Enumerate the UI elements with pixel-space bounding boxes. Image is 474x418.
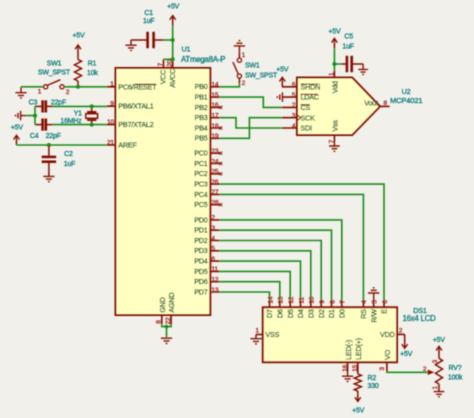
U2 left pin numbers <box>292 82 296 130</box>
svg-text:PD1: PD1 <box>194 226 208 235</box>
svg-text:5: 5 <box>292 92 296 99</box>
U2 reference and value labels <box>390 87 422 105</box>
svg-text:Y1: Y1 <box>74 110 82 117</box>
svg-text:C2: C2 <box>64 151 73 158</box>
U2 Vdd pin (1) <box>328 70 339 93</box>
svg-text:100k: 100k <box>448 374 463 381</box>
svg-text:2: 2 <box>66 89 70 96</box>
wire ground to SW1 <box>21 86 43 88</box>
RV pin numbers 3,1 <box>432 359 439 389</box>
U1 left pin stubs (1,9,10,21) <box>107 87 116 145</box>
svg-text:PB3: PB3 <box>195 113 208 122</box>
svg-text:5: 5 <box>372 300 379 304</box>
IC U2 MCP4021 body <box>297 78 380 136</box>
svg-text:Vout: Vout <box>364 98 378 107</box>
svg-text:D3: D3 <box>306 309 315 318</box>
wire +5V to Vdd and C5 <box>334 49 341 71</box>
svg-text:2: 2 <box>399 327 403 334</box>
svg-text:PD7: PD7 <box>194 287 208 296</box>
capacitor C5 <box>341 56 363 72</box>
svg-text:1uF: 1uF <box>143 18 154 25</box>
svg-text:VO: VO <box>383 349 392 360</box>
power +5V (AREF) <box>11 124 24 145</box>
svg-text:9: 9 <box>110 101 114 108</box>
wire C3/C4 common <box>26 106 35 124</box>
ground (C1) <box>125 40 136 50</box>
svg-text:PC6/RESET: PC6/RESET <box>118 82 157 91</box>
svg-text:U2: U2 <box>402 87 411 96</box>
resistor R1 <box>75 60 82 82</box>
U1 bottom pins GND(8) AGND(22) <box>156 293 177 325</box>
svg-text:4: 4 <box>292 123 296 130</box>
svg-text:4: 4 <box>211 235 215 242</box>
switch SW1 (reset) <box>44 80 65 89</box>
power +5V (SHDN) <box>276 66 289 86</box>
capacitor C3 <box>35 100 53 112</box>
ground (U2 Vss) <box>329 142 340 151</box>
svg-text:SW1: SW1 <box>47 60 62 67</box>
svg-text:16: 16 <box>211 102 218 109</box>
svg-text:8: 8 <box>383 100 387 107</box>
svg-text:PB1: PB1 <box>195 93 208 102</box>
svg-text:D1: D1 <box>327 309 336 318</box>
U1 right pin numbers PD0-PD7 <box>211 215 218 294</box>
svg-text:6: 6 <box>292 82 296 89</box>
svg-text:PD4: PD4 <box>194 257 208 266</box>
svg-text:1: 1 <box>38 88 42 95</box>
svg-text:24: 24 <box>211 158 218 165</box>
svg-text:1: 1 <box>110 81 114 88</box>
power +5V (R1 top) <box>72 33 85 60</box>
ground (SW1b, inverted) <box>234 41 245 53</box>
svg-text:+5V: +5V <box>11 124 24 131</box>
svg-text:7: 7 <box>340 300 347 304</box>
LCD DS1 body <box>263 307 397 362</box>
svg-text:+5V: +5V <box>167 3 180 10</box>
svg-text:6: 6 <box>382 300 389 304</box>
svg-text:PD3: PD3 <box>194 246 208 255</box>
ground (RV bottom) <box>434 384 445 397</box>
no-connect marks on PB2, PB4, PC0, PC1, PC2, PC5 <box>219 106 222 206</box>
capacitor C1 <box>131 32 164 48</box>
svg-text:SW_SPST: SW_SPST <box>245 73 278 80</box>
svg-text:12: 12 <box>211 277 218 284</box>
U1 left pin names <box>118 82 157 149</box>
U2 Vout pin (8) <box>364 98 389 107</box>
U1 right pin numbers 23-28 <box>211 148 218 207</box>
C5 labels 1uF <box>342 34 353 51</box>
svg-text:10k: 10k <box>87 70 98 77</box>
svg-text:MCP4021: MCP4021 <box>390 96 422 105</box>
DS1 reference and value labels <box>403 306 437 323</box>
junction R1/reset <box>76 85 80 89</box>
ground (reset switch) <box>15 87 26 98</box>
svg-text:+5V: +5V <box>72 33 85 40</box>
C4 labels 22pF <box>30 133 61 140</box>
wire C3 to XTAL1 <box>53 105 108 107</box>
svg-text:28: 28 <box>211 200 218 207</box>
svg-text:R2: R2 <box>368 375 377 382</box>
LCD VO pin (3) <box>379 349 392 372</box>
LCD LED(+) pin (15) <box>352 338 363 374</box>
svg-text:22: 22 <box>165 317 172 324</box>
svg-text:4: 4 <box>361 300 368 304</box>
svg-text:19: 19 <box>211 133 218 140</box>
svg-text:1: 1 <box>432 386 439 390</box>
svg-text:D2: D2 <box>317 309 326 318</box>
resistor R2 <box>354 374 361 391</box>
svg-text:RS: RS <box>359 309 368 319</box>
C3 labels 22pF <box>29 100 66 107</box>
U1 right pin stubs PC0-PC5 <box>210 153 219 205</box>
U1 left pin numbers <box>107 81 114 146</box>
R1 labels 10k <box>87 60 98 77</box>
svg-text:11: 11 <box>211 266 218 273</box>
svg-text:8: 8 <box>329 300 336 304</box>
svg-text:PB2: PB2 <box>195 103 208 112</box>
SW1b pin numbers <box>242 52 246 87</box>
svg-text:2: 2 <box>211 215 215 222</box>
svg-text:13: 13 <box>278 296 285 304</box>
svg-text:VDD: VDD <box>380 330 395 339</box>
svg-text:15: 15 <box>352 364 359 371</box>
svg-text:1uF: 1uF <box>64 161 75 168</box>
svg-text:+5V: +5V <box>400 351 413 358</box>
svg-text:+5V: +5V <box>328 28 341 35</box>
svg-text:Vss: Vss <box>331 120 340 132</box>
U1 right pin names PC0-PC5 <box>194 149 208 210</box>
svg-text:+5V: +5V <box>433 337 446 344</box>
svg-text:D5: D5 <box>286 309 295 318</box>
LCD top pin names D0-D7, RS, R/W, E <box>265 309 346 318</box>
power +5V (LCD VDD, down) <box>400 334 413 358</box>
svg-text:16MHz: 16MHz <box>60 118 82 125</box>
svg-text:C4: C4 <box>30 133 39 140</box>
U1 right pin numbers 14-19 <box>211 82 218 141</box>
svg-text:AREF: AREF <box>118 141 137 150</box>
power +5V (RV top) <box>433 337 446 358</box>
svg-text:14: 14 <box>211 82 218 89</box>
wire PB0 to SW1b <box>220 84 240 87</box>
svg-text:VSS: VSS <box>265 330 279 339</box>
R1 bottom pin <box>77 81 79 87</box>
U1 reference and value labels <box>181 45 225 65</box>
svg-text:LED(-): LED(-) <box>344 340 353 360</box>
svg-text:3: 3 <box>379 367 386 371</box>
U1 right pin names PB0-PB5 <box>195 82 208 143</box>
svg-text:D6: D6 <box>275 309 284 318</box>
svg-text:E: E <box>380 309 389 314</box>
svg-text:3: 3 <box>432 359 439 363</box>
RV wiper arrow (pin 2) <box>423 366 434 375</box>
svg-text:16: 16 <box>342 364 349 371</box>
svg-text:U1: U1 <box>182 45 191 54</box>
LCD LED(-) pin (16) <box>342 340 353 372</box>
wire C1 to rail <box>164 39 173 41</box>
switch SW1 (PB0, vertical) <box>233 53 242 84</box>
svg-text:11: 11 <box>298 297 305 304</box>
wire AREF <box>17 144 108 146</box>
LCD VSS pin (1) <box>255 327 279 339</box>
svg-text:25: 25 <box>211 169 218 176</box>
wire PB1 to CS <box>220 97 282 107</box>
svg-text:18: 18 <box>211 123 218 130</box>
svg-text:2: 2 <box>292 102 296 109</box>
U2 Vss pin (7) <box>328 120 339 144</box>
wire VO to potentiometer wiper <box>387 371 428 373</box>
svg-text:330: 330 <box>368 383 379 390</box>
svg-text:10: 10 <box>107 119 114 126</box>
svg-text:PD2: PD2 <box>194 236 208 245</box>
junction C3/C4 gnd <box>33 114 37 118</box>
ground (C5) <box>358 64 368 75</box>
svg-text:D0: D0 <box>337 309 346 318</box>
junction C1/+5V <box>171 38 175 42</box>
svg-text:PB7/XTAL2: PB7/XTAL2 <box>118 120 153 129</box>
svg-text:22pF: 22pF <box>46 133 61 140</box>
svg-text:SW1: SW1 <box>245 63 260 70</box>
svg-text:1: 1 <box>328 72 335 76</box>
capacitor C2 <box>42 145 56 176</box>
power +5V (U2/C5) <box>328 28 341 48</box>
svg-text:PD0: PD0 <box>194 215 208 224</box>
svg-text:26: 26 <box>211 179 218 186</box>
svg-text:6: 6 <box>211 256 215 263</box>
svg-text:VCC: VCC <box>158 70 167 85</box>
svg-text:PC1: PC1 <box>194 159 208 168</box>
wire +5V down to AVCC <box>164 26 173 60</box>
power +5V (VCC rail) <box>167 3 180 25</box>
capacitor C4 <box>35 119 53 131</box>
svg-text:D4: D4 <box>296 309 305 318</box>
wire PC4 to RS <box>220 194 364 300</box>
power +5V (R2, down) <box>352 391 365 415</box>
svg-text:27: 27 <box>211 189 218 196</box>
svg-text:16x4 LCD: 16x4 LCD <box>403 314 437 323</box>
U1 right pin stubs PB0-PB5 <box>210 87 219 139</box>
LCD VDD pin (2) <box>380 327 405 339</box>
svg-text:12: 12 <box>288 296 295 304</box>
svg-text:10: 10 <box>309 296 316 304</box>
LCD top pin stubs <box>270 300 385 307</box>
svg-text:PC5: PC5 <box>194 200 208 209</box>
svg-text:C1: C1 <box>144 10 153 17</box>
svg-text:ATmega8A-P: ATmega8A-P <box>181 55 225 64</box>
svg-text:AGND: AGND <box>167 293 176 313</box>
svg-text:R1: R1 <box>88 60 97 67</box>
svg-text:PC3: PC3 <box>194 180 208 189</box>
ground (crystal caps, rotated left) <box>16 111 27 120</box>
svg-text:+5V: +5V <box>352 408 365 415</box>
U2 SCK clock mark <box>297 115 301 121</box>
svg-text:2: 2 <box>423 366 427 373</box>
U1 right pin stubs PD0-PD7 <box>210 220 219 292</box>
junction GND/AGND <box>165 325 169 329</box>
svg-text:3: 3 <box>292 113 296 120</box>
crystal Y1 <box>86 106 98 124</box>
RV labels RV? 100k <box>448 365 463 381</box>
svg-text:C5: C5 <box>344 34 353 41</box>
svg-text:Vdd: Vdd <box>331 81 340 93</box>
U1 right pin names PD0-PD7 <box>194 215 208 296</box>
junction crystal bottom <box>90 123 94 127</box>
wire GND/AGND join <box>162 324 171 338</box>
svg-text:PC2: PC2 <box>194 169 208 178</box>
wire C4 to XTAL2 <box>53 124 108 126</box>
U2 left pin names <box>301 82 321 132</box>
svg-text:PB0: PB0 <box>195 82 208 91</box>
wire PB3 to SDI <box>220 118 282 128</box>
svg-text:14: 14 <box>267 296 274 304</box>
svg-text:PC0: PC0 <box>194 149 208 158</box>
svg-text:8: 8 <box>156 320 163 324</box>
wire PC3 to E <box>220 184 384 300</box>
svg-text:+5V: +5V <box>276 66 289 73</box>
R2 labels 330 <box>368 375 379 390</box>
svg-text:2: 2 <box>242 80 246 87</box>
IC U1 ATmega8A-P body <box>116 68 211 315</box>
junction VCC split <box>171 57 175 61</box>
ground (LCD VSS) <box>250 335 261 344</box>
svg-text:1: 1 <box>255 327 259 334</box>
wire PB5 to SCK <box>220 118 282 139</box>
svg-text:C3: C3 <box>29 100 38 107</box>
svg-text:13: 13 <box>211 287 218 294</box>
svg-text:SDI: SDI <box>301 124 313 133</box>
SW1 labels SW_SPST <box>38 60 71 76</box>
svg-text:17: 17 <box>211 113 218 120</box>
svg-text:PC4: PC4 <box>194 190 208 199</box>
svg-text:GND: GND <box>158 297 167 312</box>
svg-text:SW_SPST: SW_SPST <box>38 69 71 76</box>
ground (R/W, inverted) <box>368 288 379 301</box>
junction C2/AREF <box>47 143 51 147</box>
svg-text:PD5: PD5 <box>194 267 208 276</box>
SW1 pin numbers <box>38 88 70 96</box>
svg-text:21: 21 <box>107 139 114 146</box>
svg-text:D7: D7 <box>265 309 274 318</box>
SW1b labels SW_SPST <box>245 63 278 80</box>
svg-text:15: 15 <box>211 92 218 99</box>
junction crystal top <box>90 104 94 108</box>
wires PD0-PD7 to LCD D0-D7 <box>220 220 342 300</box>
svg-text:AVCC: AVCC <box>168 69 177 88</box>
svg-text:PB4: PB4 <box>195 123 208 132</box>
Y1 labels 16MHz <box>60 110 82 125</box>
svg-text:SCK: SCK <box>301 113 316 122</box>
U2 left pin stubs (6,5,2,3,4) <box>282 87 297 128</box>
svg-text:9: 9 <box>319 300 326 304</box>
svg-text:RV?: RV? <box>449 365 462 372</box>
ground (LDAC, rotated left) <box>277 92 282 101</box>
svg-text:1uF: 1uF <box>342 43 353 50</box>
svg-text:3: 3 <box>211 225 215 232</box>
ground (C2) <box>43 176 54 181</box>
svg-text:7: 7 <box>157 63 164 67</box>
svg-text:PB5: PB5 <box>195 134 208 143</box>
svg-text:PB6/XTAL1: PB6/XTAL1 <box>118 102 153 111</box>
svg-text:LED(+): LED(+) <box>354 338 363 360</box>
junction C5/Vdd <box>332 62 336 66</box>
ground (LED-) <box>342 372 353 382</box>
U1 top pins VCC(7) AVCC(20) <box>157 59 177 87</box>
svg-text:PD6: PD6 <box>194 277 208 286</box>
C1 labels 1uF <box>143 10 154 25</box>
C2 labels 1uF <box>64 151 75 168</box>
svg-text:1: 1 <box>242 52 246 59</box>
ground (U1 GND/AGND) <box>161 338 172 343</box>
wire SW1 to PC6/RESET <box>64 86 107 88</box>
svg-text:5: 5 <box>211 246 215 253</box>
LCD top pin numbers 7-14,4,5,6 <box>267 296 389 304</box>
svg-text:23: 23 <box>211 148 218 155</box>
svg-text:R/W: R/W <box>369 309 378 323</box>
potentiometer RV? 100k <box>436 358 443 384</box>
